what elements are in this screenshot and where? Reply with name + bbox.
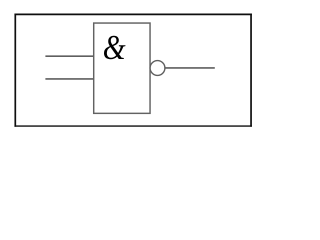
border frame right	[250, 14, 252, 127]
svg-text:&: &	[103, 27, 126, 66]
inversion bubble	[150, 61, 165, 76]
border frame left	[14, 14, 16, 127]
wire input A	[45, 55, 93, 57]
border frame top	[14, 13, 251, 15]
wire output Y	[165, 67, 215, 69]
NAND gate U1 body	[94, 23, 150, 113]
wire input B	[45, 78, 93, 80]
border frame bottom	[14, 125, 251, 127]
